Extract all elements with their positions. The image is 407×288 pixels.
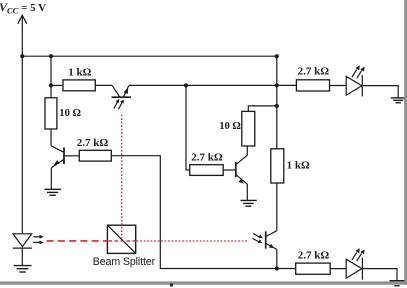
svg-text:2.7 kΩ: 2.7 kΩ	[77, 137, 109, 149]
node junction rail-left	[20, 54, 24, 58]
node junction rail-R1	[49, 54, 53, 58]
label R4 2.7 kOhm	[191, 152, 223, 164]
resistor R1 1 kOhm (horizontal, top left)	[63, 80, 95, 91]
node junction PT2-emitter-bottom	[275, 266, 279, 270]
wire R4 to Q2 base	[223, 169, 236, 171]
resistor R3 2.7 kOhm (horizontal, Q1 base)	[79, 150, 111, 161]
phototransistor PT1 (top)	[112, 85, 132, 109]
resistor R2 10 Ohm (vertical, left)	[45, 98, 57, 129]
LED D1 (bottom left, emitter)	[13, 234, 44, 248]
transistor Q2 (middle, NPN)	[236, 155, 248, 200]
node junction R5-drop	[275, 104, 279, 108]
wire R6 to PT2	[276, 183, 278, 231]
wire LED3 to ground	[362, 86, 398, 98]
optical beam dashed (LED1 to splitter)	[47, 240, 108, 242]
resistor R8 2.7 kOhm (horizontal, top right)	[296, 80, 329, 91]
node junction mid-drop	[184, 83, 188, 87]
svg-text:10 Ω: 10 Ω	[59, 108, 81, 119]
wire Q2 collector to R5	[246, 146, 248, 156]
border bottom	[0, 281, 407, 284]
LED D2 (bottom right)	[346, 248, 364, 280]
wire vcc right drop	[276, 56, 278, 149]
LED D3 (top right)	[346, 65, 364, 96]
label R5 10 Ohm	[219, 121, 241, 132]
wire R3 to bottom net	[111, 156, 295, 269]
wire left rail down to LED1	[21, 56, 23, 233]
power VCC arrow	[18, 15, 27, 56]
transistor Q1 (bottom left, NPN mirrored)	[51, 146, 79, 189]
label R8 2.7 kOhm	[298, 66, 330, 78]
wire PT1 emitter to right	[129, 84, 297, 86]
svg-text:2.7 kΩ: 2.7 kΩ	[298, 250, 330, 262]
svg-text:1 kΩ: 1 kΩ	[68, 67, 91, 79]
wire PT2 emitter down	[276, 249, 278, 268]
svg-text:10 Ω: 10 Ω	[219, 121, 241, 132]
phototransistor PT2 (bottom)	[253, 231, 277, 250]
optical beam dashed (inside splitter)	[109, 240, 136, 242]
optical beam dotted (splitter up to PT1)	[121, 115, 123, 241]
label R1 1 kOhm	[68, 67, 91, 79]
wire LED1 to ground	[21, 248, 23, 265]
ground G5 (LED1)	[14, 266, 32, 272]
svg-text:Beam Splitter: Beam Splitter	[93, 256, 156, 268]
label R2 10 Ohm	[59, 108, 81, 119]
label R6 1 kOhm	[287, 160, 310, 172]
label Beam Splitter	[93, 256, 156, 268]
ground G4 (top right)	[391, 98, 406, 103]
node junction R1-R2	[49, 83, 53, 87]
wire LED2 to ground	[362, 269, 397, 281]
wire mid drop to R4	[186, 85, 190, 170]
resistor R7 2.7 kOhm (horizontal, bottom right)	[296, 263, 331, 274]
ground G1 (Q1 emitter)	[44, 189, 61, 195]
stray dot	[170, 283, 173, 286]
wire R8 to LED3	[330, 85, 347, 87]
beam splitter box	[107, 225, 135, 253]
wire branch to R1/R2	[51, 56, 63, 98]
ground G2 (Q2 emitter)	[241, 200, 257, 206]
ground G3 (bottom right)	[390, 281, 405, 286]
optical beam dotted (splitter to PT2)	[137, 240, 248, 242]
node VCC label	[0, 0, 46, 16]
label R3 2.7 kOhm	[77, 137, 109, 149]
wire R1 to PT1	[95, 84, 112, 86]
svg-text:VCC = 5 V: VCC = 5 V	[0, 0, 46, 16]
resistor R6 1 kOhm (vertical, right)	[271, 149, 284, 183]
svg-text:1 kΩ: 1 kΩ	[287, 160, 310, 172]
wire R7 to LED2	[330, 268, 346, 270]
resistor R5 10 Ohm (vertical, middle)	[242, 111, 255, 146]
node junction rail-right	[275, 54, 279, 58]
wire top rail	[22, 55, 276, 57]
svg-text:2.7 kΩ: 2.7 kΩ	[191, 152, 223, 164]
label R7 2.7 kOhm	[298, 250, 330, 262]
border right	[404, 0, 407, 285]
wire R5 top to vcc drop	[248, 106, 276, 112]
node junction right-drop-85	[275, 83, 279, 87]
wire R2 to Q1 collector	[50, 129, 52, 146]
svg-text:2.7 kΩ: 2.7 kΩ	[298, 66, 330, 78]
resistor R4 2.7 kOhm (horizontal, Q2 base)	[190, 165, 224, 176]
